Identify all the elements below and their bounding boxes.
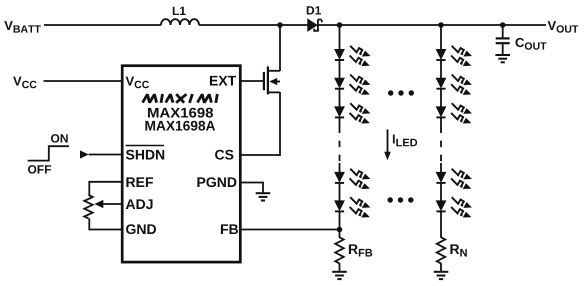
potentiometer R1 xyxy=(84,195,92,218)
LED D5 xyxy=(335,169,369,189)
resistor RFB xyxy=(335,237,343,263)
pin CS label xyxy=(215,150,233,160)
ground at RFB xyxy=(332,272,347,279)
wire xyxy=(440,117,442,126)
LED D7 xyxy=(436,46,470,66)
wire EXT to gate xyxy=(239,80,263,82)
pin ADJ label xyxy=(126,199,153,209)
wire xyxy=(339,163,341,172)
wire drain to rail xyxy=(279,25,281,71)
wire xyxy=(440,163,442,172)
wire xyxy=(339,60,341,78)
wire xyxy=(339,211,341,237)
LED string 1 wire xyxy=(339,25,341,50)
IC U1 MAX1698 box xyxy=(122,66,240,262)
pin VCC label xyxy=(126,77,149,89)
LED D10 xyxy=(436,169,470,189)
dashed wire string 1 xyxy=(339,127,341,164)
IC part number MAX1698 xyxy=(148,108,213,118)
wire arrow to SHDN pin xyxy=(89,154,123,156)
pin FB label xyxy=(221,224,238,234)
diode D1 (Schottky) xyxy=(308,19,317,31)
IC part number MAX1698A xyxy=(145,121,215,131)
pin SHDN label (overline) xyxy=(126,150,164,160)
LED D4 xyxy=(335,103,369,123)
wire source to CS xyxy=(239,92,280,155)
transistor N1 MOSFET xyxy=(264,66,268,94)
wire xyxy=(440,89,442,107)
LED D11 xyxy=(436,197,470,217)
junction node at L1/drain xyxy=(277,22,283,28)
LED D2 xyxy=(335,46,369,66)
wire xyxy=(339,117,341,126)
wire xyxy=(339,89,341,107)
LED D8 xyxy=(436,75,470,95)
ground at COUT xyxy=(495,55,510,62)
wire xyxy=(440,60,442,78)
node VBATT label xyxy=(4,21,41,32)
wire xyxy=(440,183,442,201)
ground at PGND xyxy=(256,193,271,200)
inductor L1 xyxy=(161,19,199,25)
pin GND label xyxy=(126,224,156,234)
wire FB to RFB node xyxy=(239,229,340,231)
wire VBATT to L1 xyxy=(44,24,161,26)
wire potentiometer to GND pin xyxy=(89,218,122,229)
node VCC label xyxy=(13,77,36,89)
input arrow to SHDN xyxy=(80,150,89,158)
pin EXT label xyxy=(210,76,236,86)
current arrow ILED xyxy=(387,129,389,153)
wire RFB to ground xyxy=(339,263,341,271)
wire PGND to ground xyxy=(239,183,263,193)
LED string N wire xyxy=(440,25,442,50)
wiper arrow to ADJ xyxy=(102,203,122,205)
junction node string 1 xyxy=(337,22,343,28)
capacitor COUT xyxy=(502,25,504,37)
ground at RN xyxy=(434,272,449,279)
wire xyxy=(339,183,341,201)
dashed wire string N xyxy=(440,127,442,164)
LED D6 xyxy=(335,197,369,217)
pin REF label xyxy=(126,177,153,187)
MAXIM logo xyxy=(143,94,218,103)
wire xyxy=(440,211,442,237)
wire L1 to D1 xyxy=(199,24,308,26)
wire RN to ground xyxy=(440,263,442,271)
junction node COUT xyxy=(500,22,506,28)
junction node string N xyxy=(438,22,444,28)
ellipsis dots lower xyxy=(388,197,393,202)
junction node FB xyxy=(337,227,343,233)
wire REF to potentiometer xyxy=(89,182,122,195)
pin PGND label xyxy=(197,177,236,187)
LED D9 xyxy=(436,103,470,123)
resistor RN xyxy=(437,237,445,263)
ON/OFF step waveform xyxy=(28,146,69,160)
wire VCC to pin xyxy=(44,80,123,82)
wire D1 to VOUT xyxy=(318,24,546,26)
ellipsis dots upper xyxy=(388,90,393,95)
node VOUT label xyxy=(548,21,579,33)
LED D3 xyxy=(335,75,369,95)
